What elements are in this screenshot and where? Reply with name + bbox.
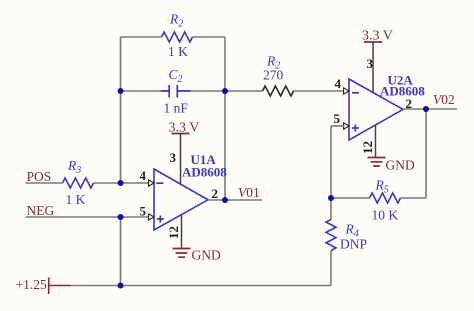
wire node down to R4	[330, 198, 332, 220]
svg-text:V01: V01	[238, 185, 260, 200]
wire top feedback right segment	[193, 36, 226, 38]
svg-text:NEG: NEG	[27, 203, 55, 218]
U2A pin5 input arrow	[344, 123, 349, 129]
junction +1.25 rail	[118, 283, 124, 289]
junction U2A output	[423, 106, 429, 112]
label R5 designator	[375, 178, 389, 196]
junction inverting input node	[118, 180, 124, 186]
svg-text:+1.25: +1.25	[16, 277, 47, 292]
label DNP value	[340, 237, 367, 252]
wire POS lead	[26, 182, 63, 184]
svg-text:V02: V02	[433, 92, 455, 107]
resistor R3	[63, 178, 94, 188]
U2A pin number 3	[367, 56, 374, 71]
wire R4 bottom to rail	[330, 251, 332, 286]
port +1.25 tick	[48, 278, 50, 295]
power 3.3V bar U1A	[172, 133, 190, 135]
svg-text:1 K: 1 K	[168, 44, 188, 59]
power 3.3V label U2A	[362, 29, 393, 44]
ground GND label U2A	[386, 158, 415, 173]
net V01 label	[238, 185, 260, 200]
net POS label	[27, 169, 52, 184]
power 3.3V label U1A	[169, 121, 200, 136]
wire U1A output	[208, 199, 262, 201]
label 1 K value	[168, 44, 188, 59]
junction R4 R5 node	[328, 195, 334, 201]
label 270 value	[263, 68, 284, 83]
port +1.25 label	[16, 277, 47, 292]
U1A pin number 12 rotated	[166, 226, 181, 239]
label C2 designator	[169, 67, 183, 85]
wire +1.25 rail	[71, 285, 331, 287]
U2A pin number 12 rotated	[360, 141, 375, 154]
svg-text:12: 12	[360, 141, 375, 154]
wire NEG to U1A pin5	[26, 216, 150, 218]
ground symbol U1A	[173, 249, 191, 258]
wire U1A pin12 stub	[181, 215, 183, 249]
U1A pin number 5	[140, 204, 147, 219]
svg-text:3: 3	[170, 150, 177, 165]
svg-text:4: 4	[335, 76, 342, 91]
svg-text:12: 12	[166, 226, 181, 239]
U2A pin number 5	[334, 111, 341, 126]
U1A pin number 3	[170, 150, 177, 165]
net NEG label	[27, 203, 55, 218]
wire from node to R2 270	[225, 90, 263, 92]
svg-text:10 K: 10 K	[372, 208, 399, 223]
U1A pin5 input arrow	[149, 214, 154, 220]
wire R2 270 to U2A pin4	[294, 90, 345, 92]
U2A designator text	[388, 73, 414, 88]
junction U1A output	[222, 197, 228, 203]
svg-text:270: 270	[263, 68, 284, 83]
resistor R2 (1K feedback)	[162, 32, 193, 42]
ground GND label U1A	[192, 248, 221, 263]
wire C2 row right	[191, 90, 225, 92]
wire node to R5	[331, 197, 370, 199]
wire +1.25 maroon lead	[49, 285, 71, 287]
svg-text:5: 5	[140, 204, 147, 219]
wire U2A pin12 stub	[375, 126, 377, 158]
svg-text:5: 5	[334, 111, 341, 126]
svg-text:1 nF: 1 nF	[164, 101, 189, 116]
label R2 designator	[169, 12, 183, 30]
wire V02 branch vertical	[425, 109, 427, 198]
op-amp U1A triangle	[154, 169, 208, 230]
power 3.3V bar U2A	[364, 41, 382, 43]
wire top feedback left segment	[121, 36, 162, 38]
wire U2A output	[403, 108, 457, 110]
U2A pin number 2	[406, 96, 413, 111]
op-amp U2A triangle	[349, 79, 403, 140]
label R4 designator	[345, 222, 359, 240]
svg-text:2: 2	[212, 186, 219, 201]
resistor R5	[370, 193, 401, 203]
wire C2 row left	[121, 90, 161, 92]
svg-text:AD8608: AD8608	[182, 165, 227, 180]
wire NEG node down to +1.25 rail	[120, 217, 122, 286]
svg-text:POS: POS	[27, 169, 52, 184]
svg-text:DNP: DNP	[340, 237, 367, 252]
svg-text:AD8608: AD8608	[380, 84, 425, 99]
junction C2 right	[222, 88, 228, 94]
resistor R2 (270 series)	[263, 86, 294, 96]
label R2 designator (270)	[266, 54, 280, 72]
wire U2A pin3 supply stub	[372, 42, 374, 93]
wire feedback left vertical	[120, 37, 122, 183]
wire U2A pin5 horizontal	[331, 125, 344, 127]
svg-text:GND: GND	[192, 248, 221, 263]
wire U2A pin5 vertical to node	[330, 126, 332, 198]
label R3 designator	[67, 158, 81, 176]
wire R3 to U1A pin4	[94, 182, 150, 184]
svg-text:R2: R2	[169, 12, 183, 30]
svg-text:1 K: 1 K	[66, 192, 86, 207]
wire R5 to V02 branch	[401, 197, 427, 199]
wire feedback right vertical	[224, 37, 226, 200]
resistor R4 vertical	[326, 220, 336, 251]
svg-text:R3: R3	[67, 158, 81, 176]
U1A pin4 input arrow	[149, 180, 154, 186]
junction NEG node	[118, 214, 124, 220]
svg-text:C2: C2	[169, 67, 183, 85]
label 1 nF value	[164, 101, 189, 116]
capacitor C2	[161, 85, 191, 98]
U1A designator text	[191, 152, 217, 167]
U2A part number AD8608	[380, 84, 425, 99]
svg-text:GND: GND	[386, 158, 415, 173]
U2A pin4 input arrow	[344, 88, 349, 94]
U1A part number AD8608	[182, 165, 227, 180]
svg-text:4: 4	[140, 168, 147, 183]
ground symbol U2A	[368, 158, 386, 167]
junction C2 left	[118, 88, 124, 94]
U2A pin number 4	[335, 76, 342, 91]
U1A pin number 2	[212, 186, 219, 201]
label 10 K value	[372, 208, 399, 223]
U1A pin number 4	[140, 168, 147, 183]
net V02 label	[433, 92, 455, 107]
label 1 K value R3	[66, 192, 86, 207]
wire U1A pin3 supply stub	[180, 134, 182, 185]
